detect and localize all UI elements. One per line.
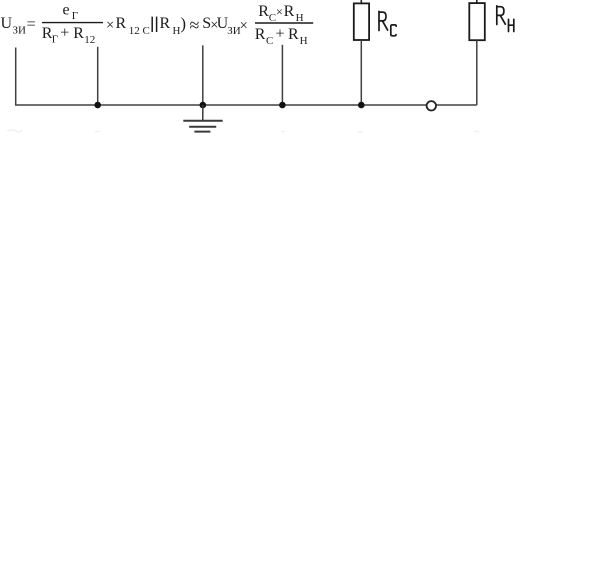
svg-text:U: U [1,15,13,32]
resistor R_H [469,0,514,105]
svg-text:×: × [276,5,283,19]
faint scan artifacts [7,130,479,132]
svg-text:R: R [160,15,171,32]
svg-text:Г: Г [72,10,78,22]
junction: bus / fraction vertical [279,102,286,109]
svg-text:R: R [73,25,84,42]
svg-text:+: + [60,25,69,42]
resistor R_C [354,0,396,105]
svg-text:Г: Г [52,33,58,45]
wire: left vertical from formula U_ЗИ to bus [15,48,17,106]
wire: vertical from R_12 term to bus [97,47,99,105]
wire: vertical from R_C+R_H fraction to bus [281,45,283,105]
svg-text:=: = [27,16,36,33]
svg-text:≈: ≈ [190,15,200,35]
svg-text:Н: Н [300,35,308,47]
svg-text:Н: Н [173,25,181,37]
node: open-circle terminal on bus [427,101,436,110]
ground [183,105,222,132]
junction: bus / ground branch [200,102,207,109]
svg-text:12: 12 [84,34,95,46]
svg-text:R: R [288,26,299,43]
junction: bus / R_12 vertical [94,102,101,109]
junction: bus / R_C lead [358,102,365,109]
svg-text:+: + [276,25,285,42]
svg-text:R: R [116,15,127,32]
svg-text:e: e [63,2,70,19]
svg-text:): ) [180,14,186,33]
svg-text:R: R [255,26,266,43]
svg-text:ЗИ: ЗИ [13,25,27,37]
svg-text:R: R [284,3,295,20]
formula: U_ЗИ = e_Г/(R_Г+R_12) × R_12C ∥ R_H) ≈ S×U_ЗИ× R_C×R_H/(R_C+R_H) [1,2,314,48]
svg-text:Н: Н [296,12,304,24]
svg-text:×: × [240,18,248,34]
wire: horizontal bus [15,104,477,106]
svg-text:С: С [266,35,273,47]
wire: vertical from S×U_ЗИ term to bus (ground branch) [202,45,204,105]
svg-text:×: × [106,17,114,33]
svg-text:12 С: 12 С [129,25,150,37]
svg-text:R: R [258,3,269,20]
